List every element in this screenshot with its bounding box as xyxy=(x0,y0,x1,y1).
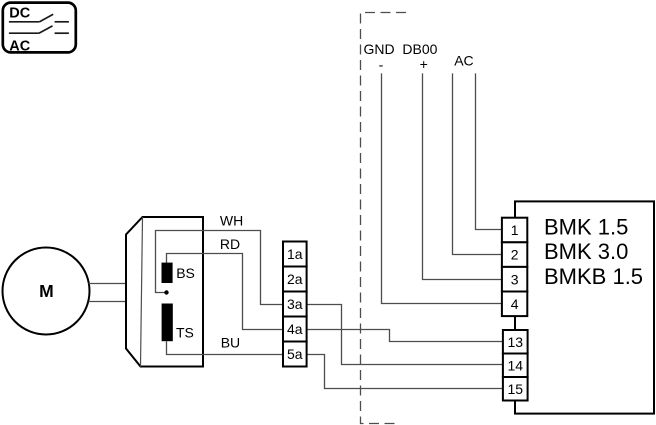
terminals 13-15 xyxy=(503,330,528,401)
wire GND to terminal 4 xyxy=(382,73,502,303)
svg-text:AC: AC xyxy=(454,52,473,68)
wire AC to terminal 1 xyxy=(476,73,502,229)
svg-text:TS: TS xyxy=(176,325,194,341)
svg-text:DC: DC xyxy=(9,6,30,22)
housing facet line xyxy=(141,217,143,367)
svg-text:RD: RD xyxy=(220,236,240,252)
wire DB00 to terminal 3 xyxy=(423,73,502,279)
terminals 1-4 xyxy=(502,218,527,316)
svg-text:BU: BU xyxy=(221,335,240,351)
dashed enclosure boundary xyxy=(361,13,407,424)
svg-text:4: 4 xyxy=(511,296,519,312)
shaft xyxy=(89,283,127,285)
svg-text:1: 1 xyxy=(511,222,519,238)
switch contact DC xyxy=(9,21,40,23)
svg-text:13: 13 xyxy=(507,334,523,350)
wire 4a to 13 xyxy=(307,330,503,342)
svg-text:4a: 4a xyxy=(287,321,303,337)
wire 5a to 15 xyxy=(307,355,503,389)
wire WH tap xyxy=(156,231,284,305)
motor M xyxy=(3,248,90,335)
BMK control unit xyxy=(515,201,654,413)
wire 3a to 14 xyxy=(307,305,503,365)
svg-text:BS: BS xyxy=(176,265,195,281)
wire BU xyxy=(167,341,284,354)
svg-text:AC: AC xyxy=(9,39,30,55)
svg-text:BMK 1.5: BMK 1.5 xyxy=(544,214,628,239)
svg-text:1a: 1a xyxy=(287,246,303,262)
svg-text:2: 2 xyxy=(511,247,519,263)
svg-text:M: M xyxy=(39,281,54,301)
wire RD xyxy=(167,254,284,330)
bimetal switch BS xyxy=(162,263,173,283)
DC/AC changeover switch icon xyxy=(3,3,76,55)
terminal strip 1a-5a xyxy=(283,242,307,367)
terminal housing xyxy=(126,217,203,367)
svg-text:GND: GND xyxy=(364,41,395,57)
svg-text:3a: 3a xyxy=(287,296,303,312)
svg-text:14: 14 xyxy=(507,357,523,373)
svg-text:+: + xyxy=(420,56,428,72)
svg-text:-: - xyxy=(379,57,384,73)
svg-text:15: 15 xyxy=(507,381,523,397)
svg-text:BMK 3.0: BMK 3.0 xyxy=(544,239,628,264)
svg-text:DB00: DB00 xyxy=(402,41,437,57)
junction node xyxy=(164,290,168,294)
wire AC to terminal 2 xyxy=(453,73,502,254)
svg-text:BMKB 1.5: BMKB 1.5 xyxy=(544,264,643,289)
thermal switch TS xyxy=(162,304,173,342)
svg-text:WH: WH xyxy=(220,213,243,229)
svg-text:3: 3 xyxy=(511,271,519,287)
svg-text:5a: 5a xyxy=(287,346,303,362)
switch contact AC xyxy=(9,32,39,34)
svg-text:2a: 2a xyxy=(287,271,303,287)
